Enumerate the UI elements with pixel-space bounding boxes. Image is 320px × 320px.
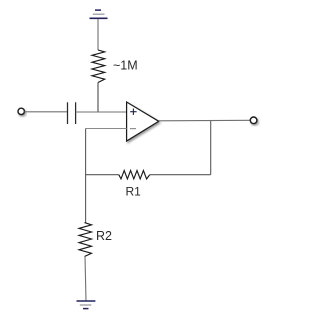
wire op-amp output to terminal [159, 119, 250, 122]
wire R1 left lead [86, 174, 119, 176]
resistor R1 [119, 171, 150, 179]
capacitor C1 [68, 102, 76, 124]
node In terminal [18, 108, 24, 114]
wire R bottom lead to node A [97, 83, 99, 113]
wire right vertical feedback [210, 121, 212, 175]
svg-text:R1: R1 [126, 184, 142, 198]
svg-text:~1M: ~1M [113, 59, 138, 73]
wire left vertical (inverting node down to R2) [85, 129, 87, 223]
wire input terminal to capacitor [24, 111, 67, 113]
resistor R2 [79, 223, 92, 257]
ground GND bottom [77, 301, 96, 309]
resistor ~1M [92, 50, 105, 83]
wire capacitor to op-amp noninverting input, node A junction [76, 111, 127, 113]
op-amp U1 [127, 102, 159, 141]
wire R1 right lead [150, 174, 211, 176]
svg-text:R2: R2 [96, 229, 112, 243]
pin - (inverting) [130, 128, 136, 130]
wire ground to R top lead [97, 19, 99, 50]
wire R2 bottom lead to ground [85, 257, 86, 301]
ground GND top (inverted) [90, 10, 108, 18]
wire inverting input to left [86, 128, 127, 130]
node Out terminal [250, 117, 257, 124]
pin + (noninverting) [130, 109, 136, 115]
